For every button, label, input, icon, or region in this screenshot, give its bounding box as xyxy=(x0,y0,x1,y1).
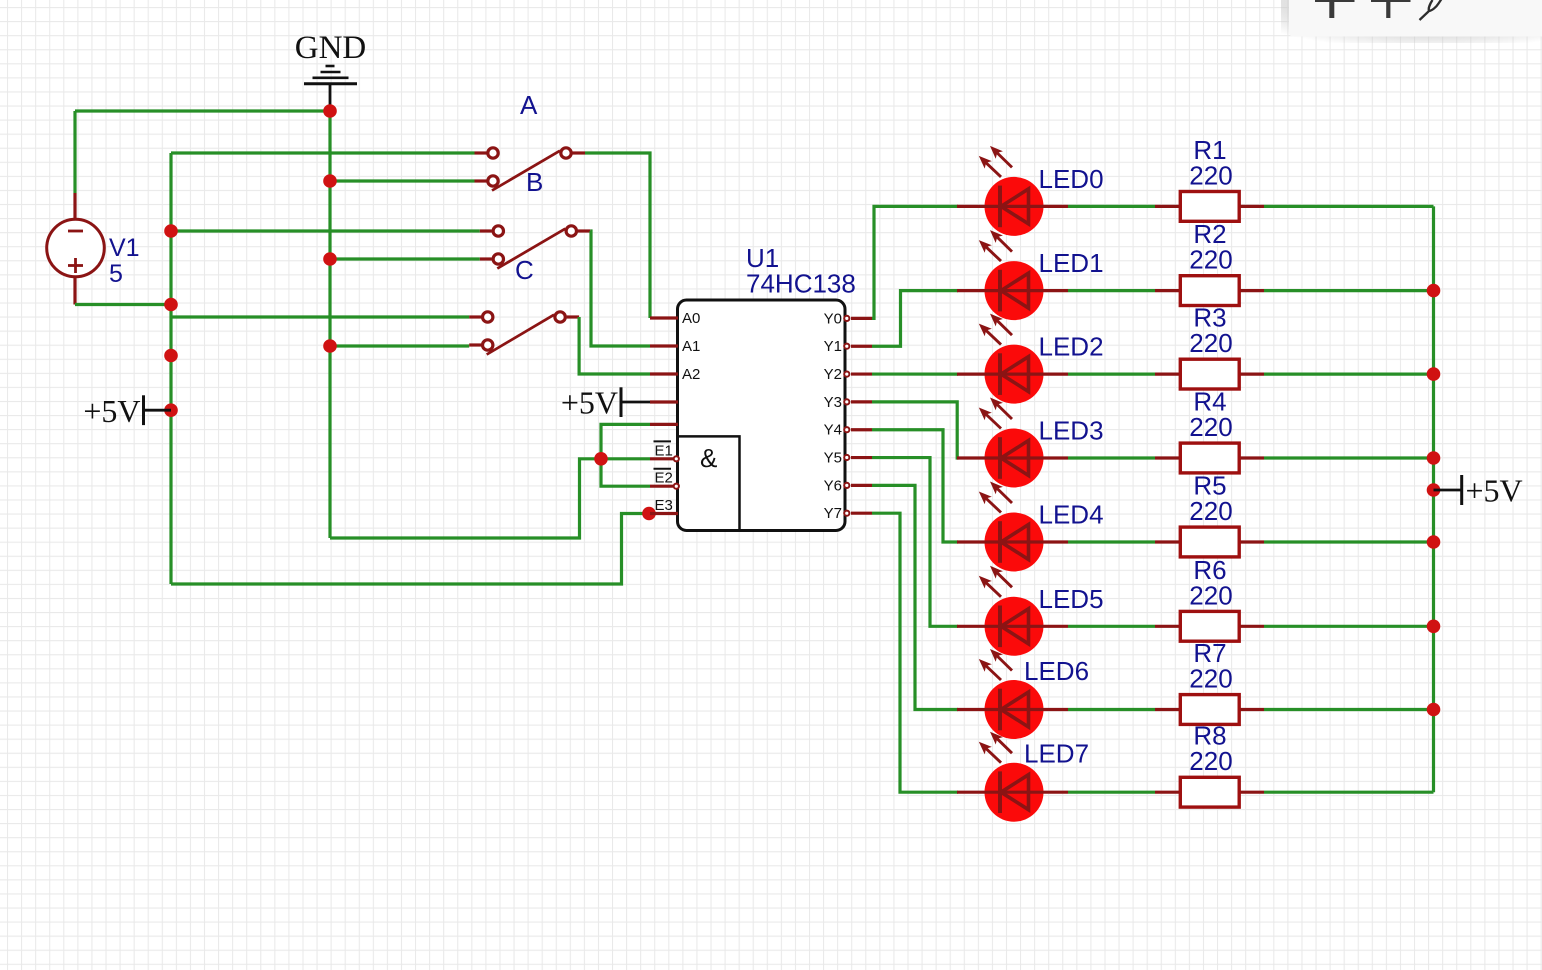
svg-text:220: 220 xyxy=(1189,496,1232,526)
wire GND bus bottom run to E1 E2 xyxy=(330,459,650,538)
junction GND bus switch B row xyxy=(323,252,337,266)
wire LED3 to R4 xyxy=(1068,456,1155,459)
toolbar icon pen xyxy=(1420,0,1442,20)
wire +5V bus to switch A top throw xyxy=(171,151,475,154)
resistor R6 xyxy=(1155,611,1264,641)
LED LED5 xyxy=(957,566,1068,656)
LED LED0 xyxy=(957,146,1068,236)
svg-text:5: 5 xyxy=(109,260,123,288)
junction +5V rail row 1 xyxy=(1427,284,1441,298)
switch A left pin stubs xyxy=(475,151,487,154)
wire +5V rail vertical right xyxy=(1432,206,1435,792)
svg-text:+5V: +5V xyxy=(561,385,618,421)
junction GND bus switch A row xyxy=(323,174,337,188)
svg-text:LED7: LED7 xyxy=(1024,739,1089,769)
wire R7 to +5V rail xyxy=(1264,708,1434,711)
wire +5V vertical bus xyxy=(169,153,172,584)
svg-text:Y6: Y6 xyxy=(824,477,842,494)
pin Y3 of U1 (active low) xyxy=(824,394,872,411)
resistor R5 xyxy=(1155,527,1264,557)
resistor R3 xyxy=(1155,359,1264,389)
junction E1 E2 GND node xyxy=(594,452,608,466)
pin Y1 of U1 (active low) xyxy=(824,338,872,355)
wire Y2 to LED2 xyxy=(872,372,958,375)
wire R4 to +5V rail xyxy=(1264,456,1434,459)
svg-text:E2: E2 xyxy=(655,470,673,487)
wire switch C output to A2 xyxy=(579,317,650,374)
svg-text:220: 220 xyxy=(1189,245,1232,275)
junction +5V rail row 6 xyxy=(1427,703,1441,717)
wire LED7 to R8 xyxy=(1068,791,1155,794)
svg-text:220: 220 xyxy=(1189,160,1232,190)
pin Y0 of U1 (active low) xyxy=(824,310,872,327)
svg-text:Y0: Y0 xyxy=(824,310,842,327)
svg-text:220: 220 xyxy=(1189,412,1232,442)
wire LED0 to R1 xyxy=(1068,205,1155,208)
svg-text:V1: V1 xyxy=(109,234,140,262)
svg-text:LED0: LED0 xyxy=(1039,164,1104,194)
svg-text:LED5: LED5 xyxy=(1039,584,1104,614)
toolbar icon net flag 1 xyxy=(1315,0,1355,18)
ground symbol xyxy=(304,66,357,111)
wire R1 to +5V rail xyxy=(1264,205,1434,208)
wire GND bus to switch A bottom throw xyxy=(330,179,475,182)
wire GND vertical bus xyxy=(328,111,331,538)
svg-text:B: B xyxy=(526,167,543,197)
pin Y7 of U1 (active low) xyxy=(824,505,872,522)
wire Y4 to LED4 xyxy=(872,430,958,542)
switch B body xyxy=(493,226,576,269)
switch A body xyxy=(488,148,571,191)
wire V1 minus vertical xyxy=(73,111,76,193)
wire +5V bus to switch B top throw xyxy=(171,229,480,232)
pin GND of U1 xyxy=(650,423,678,426)
wire +5V bus bottom run to E3 xyxy=(171,514,649,585)
wire R6 to +5V rail xyxy=(1264,625,1434,628)
svg-text:Y7: Y7 xyxy=(824,505,842,522)
wire R3 to +5V rail xyxy=(1264,373,1434,376)
junction +5V rail flag node xyxy=(1427,483,1441,497)
power flag +5V at U1 VCC xyxy=(561,385,650,421)
wire GND junction to V1 minus (horizontal) xyxy=(75,109,330,112)
svg-text:74HC138: 74HC138 xyxy=(746,269,856,299)
pin A0 of U1 xyxy=(650,316,678,319)
wire R5 to +5V rail xyxy=(1264,540,1434,543)
junction +5V bus node xyxy=(164,349,178,363)
op-amp U1 74HC138 decoder body xyxy=(678,300,846,531)
svg-text:Y2: Y2 xyxy=(824,366,842,383)
switch C left pin stubs xyxy=(469,315,481,318)
svg-text:A2: A2 xyxy=(682,366,700,383)
pin A1 of U1 xyxy=(650,344,678,347)
svg-text:LED3: LED3 xyxy=(1039,416,1104,446)
power flag +5V right xyxy=(1434,473,1523,509)
wire GND branch to IC GND pin and E2 xyxy=(601,424,650,486)
junction +5V rail row 2 xyxy=(1427,367,1441,381)
junction +5V bus V1 plus xyxy=(164,298,178,312)
wire R2 to +5V rail xyxy=(1264,289,1434,292)
svg-text:Y1: Y1 xyxy=(824,338,842,355)
LED LED7 xyxy=(957,732,1068,822)
power flag +5V left xyxy=(83,393,171,429)
svg-text:220: 220 xyxy=(1189,664,1232,694)
junction +5V rail row 3 xyxy=(1427,451,1441,465)
wire +5V bus to switch C top throw xyxy=(171,315,469,318)
svg-text:E1: E1 xyxy=(655,442,673,459)
wire Y3 to LED3 xyxy=(872,402,959,458)
junction E3 node xyxy=(642,507,656,521)
resistor R1 xyxy=(1155,192,1264,222)
switch B right pin stub xyxy=(578,229,591,232)
wire Y1 to LED1 xyxy=(872,291,958,347)
wire R8 to +5V rail xyxy=(1264,791,1434,794)
svg-text:Y4: Y4 xyxy=(824,422,842,439)
svg-text:LED4: LED4 xyxy=(1039,500,1104,530)
svg-text:A: A xyxy=(520,90,538,120)
svg-text:LED2: LED2 xyxy=(1039,332,1104,362)
junction +5V bus flag node xyxy=(164,403,178,417)
svg-text:Y3: Y3 xyxy=(824,394,842,411)
junction GND at ground symbol xyxy=(323,104,337,118)
junction +5V rail row 4 xyxy=(1427,535,1441,549)
junction +5V rail row 5 xyxy=(1427,620,1441,634)
wire LED6 to R7 xyxy=(1068,708,1155,711)
LED LED6 xyxy=(957,649,1068,739)
resistor R8 xyxy=(1155,777,1264,807)
wire switch B output to A1 xyxy=(590,231,650,346)
svg-text:E3: E3 xyxy=(655,497,673,514)
wire V1 plus to +5V bus xyxy=(75,303,171,306)
svg-text:LED6: LED6 xyxy=(1024,656,1089,686)
pin A2 of U1 xyxy=(650,372,678,375)
resistor R7 xyxy=(1155,695,1264,725)
LED LED1 xyxy=(957,230,1068,320)
svg-text:220: 220 xyxy=(1189,746,1232,776)
svg-text:220: 220 xyxy=(1189,328,1232,358)
wire Y6 to LED6 xyxy=(872,485,958,709)
switch B left pin stubs xyxy=(480,229,492,232)
junction +5V bus switch B row xyxy=(164,224,178,238)
switch C body xyxy=(483,312,566,355)
pin E2 of U1 (active low) xyxy=(650,469,679,489)
voltage source V1 xyxy=(47,193,105,305)
pin E3 of U1 xyxy=(650,497,678,514)
switch C right pin stub xyxy=(567,315,580,318)
svg-text:C: C xyxy=(515,255,534,285)
pin Y2 of U1 (active low) xyxy=(824,366,872,383)
switch A right pin stub xyxy=(573,151,586,154)
svg-text:&: & xyxy=(700,443,717,473)
pin Y6 of U1 (active low) xyxy=(824,477,872,494)
wire LED2 to R3 xyxy=(1068,373,1155,376)
svg-text:220: 220 xyxy=(1189,580,1232,610)
svg-text:+5V: +5V xyxy=(1466,473,1523,509)
pin Y4 of U1 (active low) xyxy=(824,422,872,439)
junction GND bus switch C row xyxy=(323,339,337,353)
resistor R4 xyxy=(1155,443,1264,473)
wire GND bus to switch B bottom throw xyxy=(330,257,480,260)
svg-text:+5V: +5V xyxy=(83,393,140,429)
pin VCC of U1 xyxy=(650,400,678,403)
pin E1 of U1 (active low) xyxy=(650,441,679,461)
toolbar icon net flag 2 xyxy=(1371,0,1411,18)
pin Y5 of U1 (active low) xyxy=(824,450,872,467)
svg-text:LED1: LED1 xyxy=(1039,248,1104,278)
LED LED2 xyxy=(957,314,1068,404)
svg-text:GND: GND xyxy=(295,30,367,66)
wire LED5 to R6 xyxy=(1068,625,1155,628)
svg-text:A1: A1 xyxy=(682,338,700,355)
wire GND bus to switch C bottom throw xyxy=(330,344,469,347)
LED LED4 xyxy=(957,482,1068,572)
svg-text:A0: A0 xyxy=(682,310,700,327)
wire Y0 to LED0 xyxy=(872,206,958,318)
svg-text:Y5: Y5 xyxy=(824,450,842,467)
LED LED3 xyxy=(957,398,1068,488)
wire Y7 to LED7 xyxy=(872,513,958,792)
wire LED1 to R2 xyxy=(1068,289,1155,292)
resistor R2 xyxy=(1155,276,1264,306)
wire Y5 to LED5 xyxy=(872,458,958,627)
wire LED4 to R5 xyxy=(1068,540,1155,543)
wire switch A output to A0 xyxy=(585,153,650,318)
toolbar panel top right xyxy=(1281,0,1542,43)
